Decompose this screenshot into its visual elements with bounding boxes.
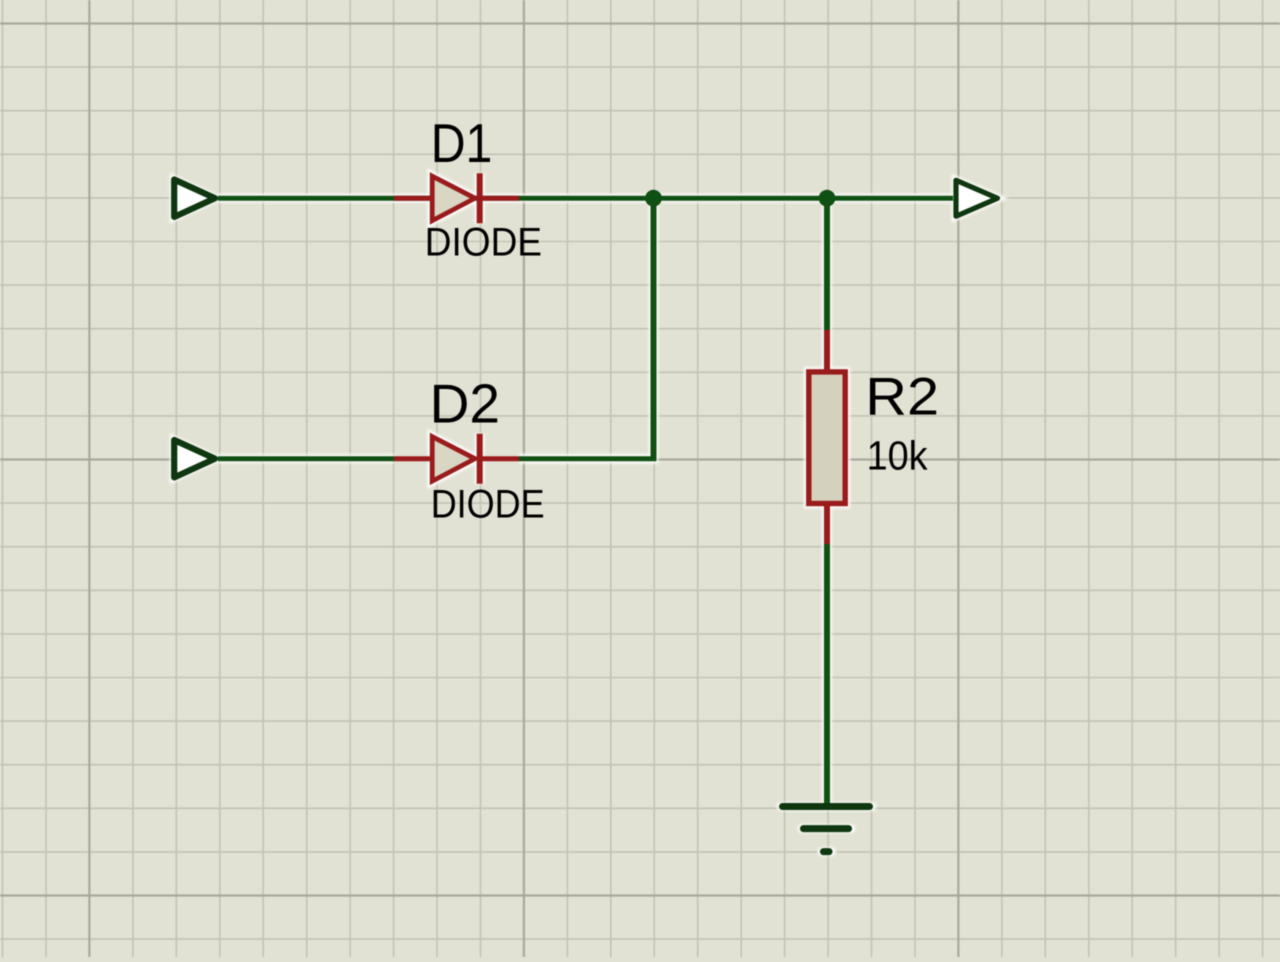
- svg-text:D2: D2: [430, 374, 500, 435]
- svg-text:DIODE: DIODE: [425, 221, 542, 265]
- svg-text:R2: R2: [865, 367, 939, 426]
- svg-text:DIODE: DIODE: [431, 483, 545, 527]
- svg-text:D1: D1: [431, 113, 493, 174]
- svg-text:10k: 10k: [867, 432, 928, 478]
